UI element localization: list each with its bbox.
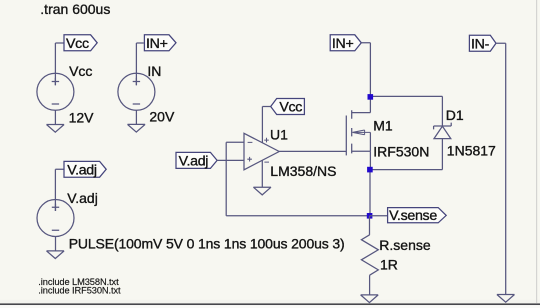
svg-text:IN: IN	[147, 63, 161, 79]
node junction J3 (V.sense)	[367, 213, 373, 219]
op-amp power markers	[264, 138, 269, 162]
wire V(V.adj) bottom to ground	[55, 237, 57, 251]
svg-text:20V: 20V	[149, 109, 175, 125]
transistor M1 source lead	[352, 151, 371, 169]
svg-text:PULSE(100mV 5V 0 1ns 1ns 100us: PULSE(100mV 5V 0 1ns 1ns 100us 200us 3)	[69, 235, 345, 251]
voltage source V(IN) body	[118, 73, 155, 110]
flag Vcc (net label at V source)	[64, 35, 97, 51]
ground G5	[361, 295, 379, 303]
voltage source V(Vcc): wire flag to circle	[55, 43, 64, 85]
wire resistor to ground	[369, 275, 371, 295]
transistor M1 gate bar	[345, 116, 347, 156]
flag V.adj (op-amp input)	[176, 152, 217, 168]
wire IN- to ground rail	[496, 43, 506, 294]
svg-text:R.sense: R.sense	[379, 237, 431, 253]
transistor M1 channel stubs	[351, 110, 353, 153]
flag IN+ (drain net)	[330, 35, 361, 51]
svg-text:1N5817: 1N5817	[447, 143, 496, 159]
wire V.adj flag to op-amp + input	[217, 159, 244, 161]
voltage source V(V.adj) body	[37, 200, 74, 237]
svg-text:IN+: IN+	[332, 36, 354, 52]
wire feedback vertical	[225, 142, 227, 216]
ground G2	[128, 124, 146, 132]
voltage source V(IN): wire flag to circle	[136, 43, 143, 85]
svg-text:M1: M1	[373, 117, 393, 133]
wire to Vcc flag at op-amp	[262, 106, 270, 108]
svg-text:12V: 12V	[69, 109, 95, 125]
svg-text:V.adj: V.adj	[67, 162, 97, 178]
wire op-amp - input	[226, 141, 244, 143]
svg-text:IRF530N: IRF530N	[373, 144, 429, 160]
transistor M1 body-source vertical	[369, 132, 371, 151]
flag Vcc (op-amp supply, left-pointing)	[271, 99, 305, 115]
diode D1 triangle	[434, 126, 451, 138]
window right edge line	[536, 0, 537, 303]
wire source node down to sense node	[369, 170, 371, 216]
resistor R.sense zigzag	[361, 235, 378, 275]
ground G4 (op-amp V-)	[253, 187, 271, 195]
svg-text:V.sense: V.sense	[389, 208, 437, 224]
wire sense node to resistor	[369, 216, 371, 235]
wire V(IN) bottom to ground	[135, 110, 137, 124]
node junction J2 (source)	[367, 167, 373, 173]
svg-text:U1: U1	[270, 127, 288, 143]
svg-text:LM358/NS: LM358/NS	[270, 163, 336, 179]
wire V(Vcc) bottom to ground	[54, 110, 56, 124]
svg-text:1R: 1R	[380, 256, 398, 272]
node junction J1 (drain)	[368, 94, 374, 100]
svg-text:Vcc: Vcc	[69, 63, 92, 79]
wire diode anode return	[370, 139, 442, 170]
op-amp bottom power wire	[261, 161, 263, 188]
diode D1 cathode (schottky bar)	[434, 123, 452, 130]
svg-text:.tran 600us: .tran 600us	[40, 1, 110, 17]
ground G6	[497, 295, 515, 303]
window bottom border	[0, 303, 540, 305]
ground G3	[47, 251, 65, 259]
svg-text:Vcc: Vcc	[66, 36, 89, 52]
wire node to V.sense flag	[370, 215, 388, 217]
flag V.adj (at source)	[64, 161, 106, 177]
transistor M1 body arrow	[352, 130, 370, 135]
svg-text:IN+: IN+	[146, 36, 168, 52]
svg-text:V.adj: V.adj	[179, 154, 209, 170]
svg-text:D1: D1	[446, 107, 464, 123]
flag V.sense	[388, 208, 447, 223]
svg-text:.include IRF530N.txt: .include IRF530N.txt	[38, 285, 121, 295]
op-amp top power wire	[261, 107, 263, 143]
op-amp input markers	[247, 142, 252, 161]
op-amp U1 triangle	[244, 133, 279, 170]
svg-text:V.adj: V.adj	[67, 190, 98, 206]
svg-text:Vcc: Vcc	[279, 100, 302, 116]
voltage source V(Vcc) body	[37, 73, 74, 110]
ground G1	[47, 125, 65, 133]
flag IN-	[469, 35, 496, 51]
flag IN+ (at IN source)	[144, 35, 176, 51]
wire IN+ flag to drain	[361, 43, 370, 97]
transistor M1 drain lead	[352, 96, 371, 112]
wire drain node to diode	[370, 96, 442, 126]
wire op-amp output to M1 gate	[279, 150, 346, 152]
svg-text:IN-: IN-	[471, 36, 490, 52]
wire feedback horizontal to V.sense node	[226, 215, 370, 217]
voltage source V(V.adj): wire flag to circle	[55, 169, 64, 211]
